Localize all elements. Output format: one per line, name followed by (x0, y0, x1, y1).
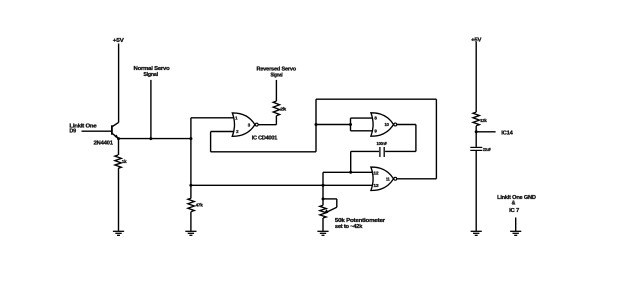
svg-text:9: 9 (374, 129, 377, 134)
svg-text:12k: 12k (480, 118, 487, 123)
svg-text:12: 12 (373, 170, 379, 175)
svg-text:3: 3 (248, 122, 251, 127)
svg-text:100nF: 100nF (377, 141, 388, 146)
svg-text:2: 2 (236, 129, 239, 134)
svg-text:+5V: +5V (113, 38, 124, 44)
svg-text:11: 11 (386, 177, 390, 182)
svg-text:LinkIt One GND: LinkIt One GND (497, 195, 536, 201)
svg-text:Signal: Signal (271, 73, 283, 79)
svg-text:IC14: IC14 (501, 131, 513, 137)
svg-text:1k: 1k (122, 159, 127, 164)
svg-text:47k: 47k (196, 202, 204, 207)
svg-text:22uF: 22uF (483, 147, 491, 152)
svg-text:&: & (512, 200, 516, 206)
svg-text:IC CD4001: IC CD4001 (252, 135, 277, 141)
svg-text:10: 10 (385, 122, 390, 127)
svg-text:50k Potentiometer: 50k Potentiometer (335, 218, 386, 224)
svg-text:Signal: Signal (143, 72, 158, 78)
svg-text:set to ~42k: set to ~42k (335, 224, 363, 230)
svg-text:+5V: +5V (471, 37, 481, 43)
svg-text:IC 7: IC 7 (509, 208, 519, 214)
svg-text:2k: 2k (280, 106, 287, 111)
svg-text:1: 1 (235, 116, 238, 121)
svg-text:2N4401: 2N4401 (94, 140, 113, 146)
svg-text:13: 13 (373, 183, 379, 188)
svg-text:D9: D9 (69, 129, 76, 135)
svg-text:8: 8 (374, 116, 377, 121)
